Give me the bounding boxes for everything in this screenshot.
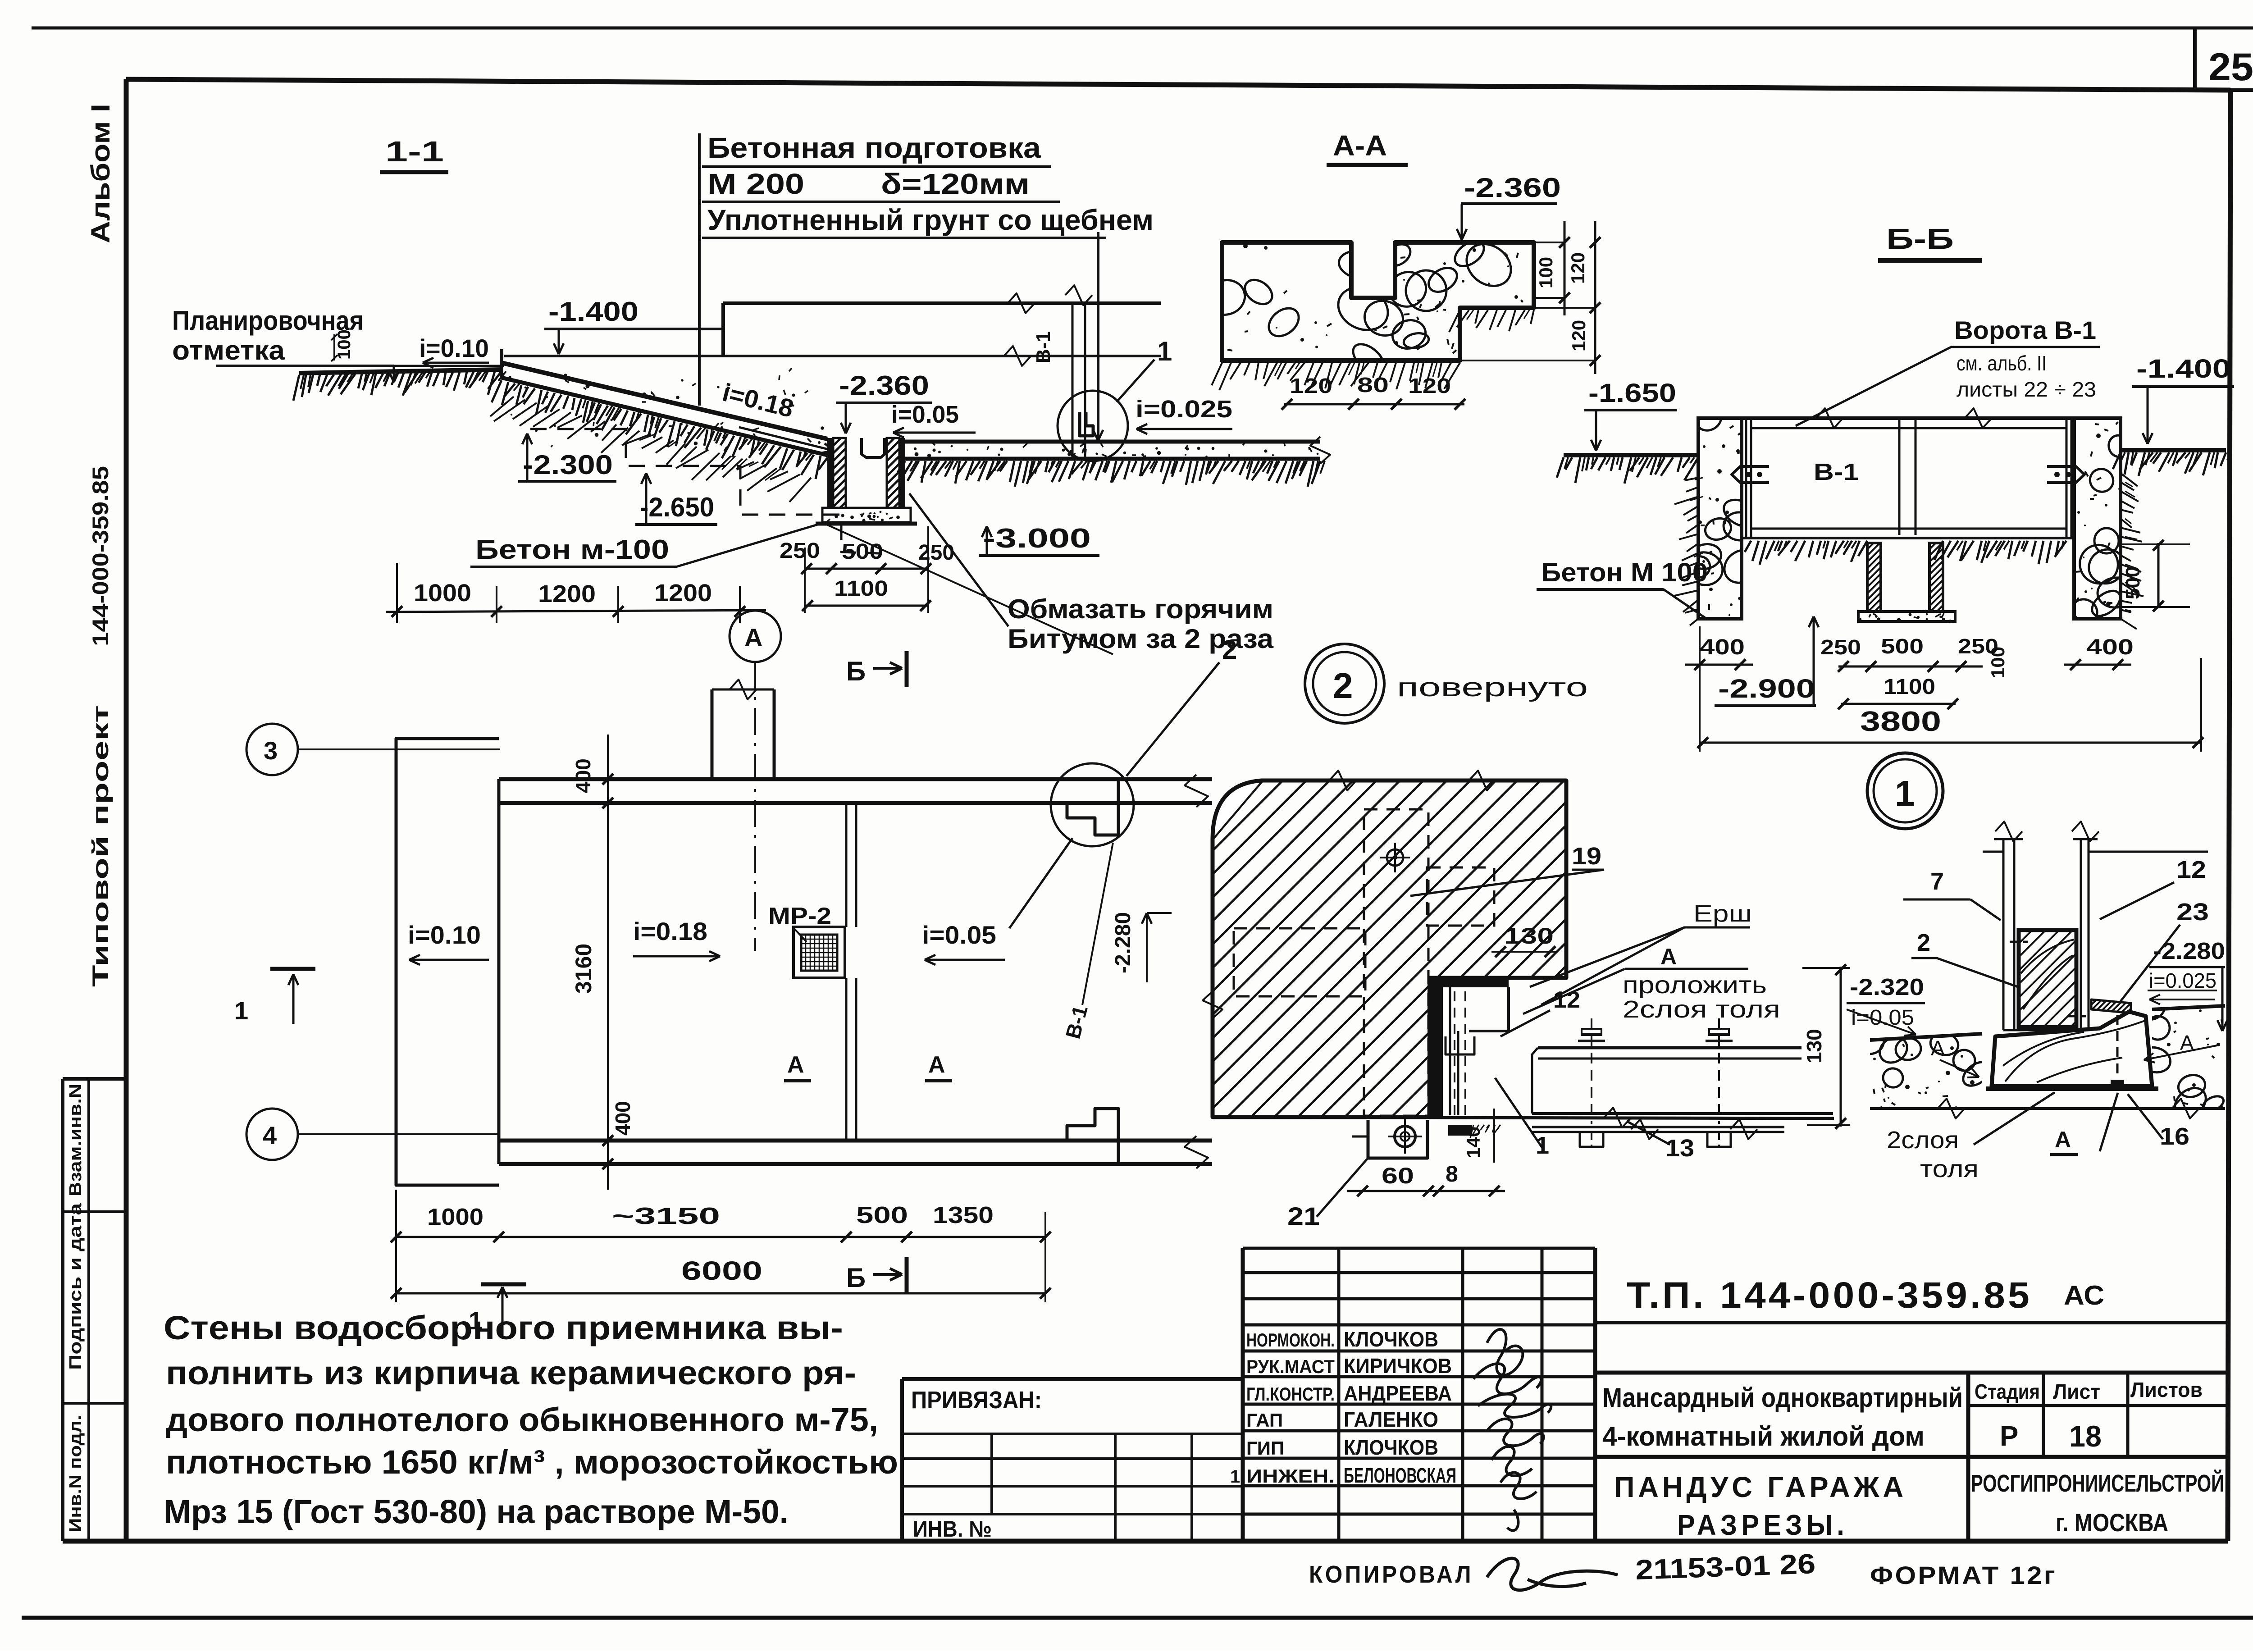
svg-text:100: 100 — [1987, 647, 2008, 678]
svg-text:1100: 1100 — [1884, 675, 1935, 699]
svg-text:δ=120мм: δ=120мм — [881, 168, 1030, 200]
svg-text:Т.П. 144-000-359.85: Т.П. 144-000-359.85 — [1627, 1275, 2032, 1316]
svg-text:АС: АС — [2064, 1280, 2104, 1310]
svg-text:500: 500 — [2122, 566, 2144, 599]
svg-text:КОПИРОВАЛ: КОПИРОВАЛ — [1309, 1561, 1473, 1588]
svg-text:8: 8 — [1446, 1161, 1458, 1187]
svg-text:21153-01 26: 21153-01 26 — [1635, 1548, 1816, 1586]
svg-text:Бетонная подготовка: Бетонная подготовка — [707, 132, 1041, 164]
svg-text:4: 4 — [263, 1121, 277, 1150]
svg-text:i=0.05: i=0.05 — [891, 401, 959, 428]
svg-text:Инв.N подл.: Инв.N подл. — [66, 1415, 85, 1532]
svg-text:500: 500 — [842, 540, 883, 564]
svg-text:i=0.05: i=0.05 — [1851, 1006, 1914, 1030]
svg-text:толя: толя — [1920, 1155, 1979, 1182]
svg-text:1: 1 — [234, 996, 248, 1025]
svg-text:1200: 1200 — [538, 580, 596, 607]
svg-text:250: 250 — [918, 541, 954, 565]
svg-text:80: 80 — [1357, 373, 1389, 397]
svg-text:Альбом I: Альбом I — [86, 104, 115, 243]
svg-text:400: 400 — [571, 758, 595, 793]
svg-text:2слоя: 2слоя — [1887, 1127, 1959, 1154]
svg-text:i=0.10: i=0.10 — [408, 921, 481, 949]
svg-text:-1.400: -1.400 — [548, 297, 639, 327]
svg-text:РОСГИПРОНИИСЕЛЬСТРОЙ: РОСГИПРОНИИСЕЛЬСТРОЙ — [1971, 1469, 2224, 1497]
svg-text:ГИП: ГИП — [1246, 1438, 1284, 1459]
svg-text:19: 19 — [1572, 843, 1601, 870]
svg-text:12: 12 — [1553, 987, 1580, 1013]
svg-text:12: 12 — [2176, 856, 2206, 883]
svg-text:130: 130 — [1504, 923, 1554, 949]
svg-text:16: 16 — [2160, 1123, 2189, 1150]
svg-text:7: 7 — [1930, 868, 1944, 895]
svg-text:-2.360: -2.360 — [839, 370, 929, 401]
svg-text:-2.280: -2.280 — [2153, 938, 2225, 964]
svg-text:А: А — [744, 623, 762, 652]
svg-text:Б: Б — [846, 656, 866, 686]
svg-text:400: 400 — [1700, 635, 1745, 659]
svg-text:i=0.18: i=0.18 — [633, 917, 707, 945]
svg-text:Уплотненный грунт со щебнем: Уплотненный грунт со щебнем — [707, 204, 1154, 236]
svg-text:Мрз 15 (Гост 530-80) на раство: Мрз 15 (Гост 530-80) на растворе М-50. — [164, 1493, 789, 1530]
svg-text:140: 140 — [1463, 1127, 1484, 1158]
svg-text:i=0.025: i=0.025 — [1136, 396, 1232, 423]
svg-text:2слоя толя: 2слоя толя — [1623, 996, 1780, 1023]
svg-text:плотностью 1650 кг/м³ , моро: плотностью 1650 кг/м³ , морозостойкостью — [166, 1443, 898, 1481]
svg-text:i=0.05: i=0.05 — [922, 921, 996, 949]
svg-text:1100: 1100 — [834, 577, 888, 601]
svg-text:-2.360: -2.360 — [1464, 173, 1561, 203]
svg-text:Р: Р — [2000, 1421, 2018, 1452]
svg-text:250: 250 — [780, 539, 820, 563]
svg-text:i=0.10: i=0.10 — [419, 334, 489, 362]
svg-text:МР-2: МР-2 — [768, 903, 831, 929]
svg-text:1000: 1000 — [427, 1204, 483, 1230]
svg-text:1000: 1000 — [414, 580, 471, 607]
svg-text:25: 25 — [2208, 46, 2253, 89]
svg-text:500: 500 — [1881, 634, 1924, 658]
svg-text:400: 400 — [2086, 635, 2134, 659]
svg-text:-1.400: -1.400 — [2136, 354, 2231, 383]
svg-text:ПРИВЯЗАН:: ПРИВЯЗАН: — [911, 1387, 1042, 1414]
svg-text:А: А — [2055, 1127, 2071, 1152]
svg-text:400: 400 — [611, 1101, 634, 1136]
svg-text:100: 100 — [1535, 257, 1556, 288]
svg-text:6000: 6000 — [681, 1256, 762, 1286]
svg-text:21: 21 — [1287, 1202, 1320, 1230]
svg-text:БЕЛОНОВСКАЯ: БЕЛОНОВСКАЯ — [1344, 1464, 1456, 1487]
svg-text:Бетон м-100: Бетон м-100 — [475, 534, 669, 565]
svg-text:120: 120 — [1567, 252, 1588, 284]
svg-text:i=0.025: i=0.025 — [2149, 969, 2217, 992]
svg-text:1350: 1350 — [933, 1202, 994, 1228]
svg-text:ИНВ. №: ИНВ. № — [913, 1516, 992, 1542]
svg-text:250: 250 — [1820, 635, 1861, 659]
svg-text:1: 1 — [469, 1306, 483, 1335]
svg-text:Б: Б — [846, 1263, 866, 1293]
svg-text:А: А — [928, 1052, 945, 1078]
svg-text:Лист: Лист — [2053, 1380, 2100, 1403]
svg-text:Типовой проект: Типовой проект — [88, 705, 113, 987]
svg-text:В-1: В-1 — [1814, 459, 1859, 485]
svg-text:НОРМОКОН.: НОРМОКОН. — [1246, 1329, 1335, 1351]
svg-text:ГАП: ГАП — [1246, 1410, 1283, 1431]
svg-text:4-комнатный жилой дом: 4-комнатный жилой дом — [1602, 1421, 1925, 1451]
svg-text:23: 23 — [2176, 899, 2209, 926]
svg-text:Бетон М 100: Бетон М 100 — [1541, 558, 1708, 587]
svg-text:-1.650: -1.650 — [1588, 379, 1676, 408]
svg-text:Ерш: Ерш — [1693, 901, 1752, 927]
svg-text:Взам.инв.N: Взам.инв.N — [66, 1084, 85, 1196]
svg-text:см. альб. II: см. альб. II — [1957, 351, 2047, 375]
svg-text:1: 1 — [1895, 773, 1915, 813]
svg-text:А: А — [1931, 1036, 1945, 1060]
svg-text:А-А: А-А — [1333, 129, 1387, 162]
svg-text:ФОРМАТ 12г: ФОРМАТ 12г — [1870, 1561, 2057, 1589]
svg-text:А: А — [1660, 944, 1677, 969]
svg-text:Листов: Листов — [2130, 1378, 2203, 1401]
svg-text:повернуто: повернуто — [1397, 673, 1588, 702]
svg-text:~3150: ~3150 — [612, 1203, 720, 1229]
svg-text:ГАЛЕНКО: ГАЛЕНКО — [1344, 1408, 1438, 1431]
svg-text:-2.280: -2.280 — [1111, 912, 1135, 973]
svg-text:РАЗРЕЗЫ.: РАЗРЕЗЫ. — [1677, 1509, 1848, 1541]
svg-text:Обмазать горячим: Обмазать горячим — [1008, 594, 1273, 624]
svg-text:А: А — [787, 1052, 804, 1078]
svg-text:1200: 1200 — [654, 580, 712, 607]
svg-text:М 200: М 200 — [707, 168, 804, 200]
svg-text:3800: 3800 — [1860, 706, 1941, 737]
svg-text:120: 120 — [1568, 320, 1589, 351]
svg-text:полнить из кирпича керамиче: полнить из кирпича керамического ря- — [166, 1354, 856, 1392]
svg-text:60: 60 — [1382, 1163, 1414, 1188]
svg-text:ПАНДУС ГАРАЖА: ПАНДУС ГАРАЖА — [1614, 1471, 1907, 1503]
svg-text:дового полнотелого обыкновен: дового полнотелого обыкновенного м-75, — [166, 1401, 878, 1438]
svg-text:проложить: проложить — [1623, 972, 1767, 999]
svg-text:2: 2 — [1917, 929, 1930, 956]
svg-text:Б-Б: Б-Б — [1886, 223, 1954, 255]
svg-text:ИНЖЕН.: ИНЖЕН. — [1246, 1465, 1335, 1487]
svg-text:отметка: отметка — [172, 335, 285, 365]
svg-text:-2.900: -2.900 — [1718, 674, 1815, 703]
svg-text:500: 500 — [856, 1202, 908, 1228]
svg-text:Ворота В-1: Ворота В-1 — [1954, 316, 2096, 344]
svg-text:13: 13 — [1665, 1135, 1694, 1162]
svg-text:КЛОЧКОВ: КЛОЧКОВ — [1344, 1328, 1438, 1351]
svg-text:КЛОЧКОВ: КЛОЧКОВ — [1344, 1436, 1438, 1459]
svg-text:144-000-359.85: 144-000-359.85 — [88, 466, 113, 646]
svg-text:2: 2 — [1222, 634, 1237, 665]
svg-text:В-1: В-1 — [1032, 331, 1054, 363]
svg-text:АНДРЕЕВА: АНДРЕЕВА — [1344, 1382, 1452, 1405]
svg-text:Мансардный одноквартирный: Мансардный одноквартирный — [1602, 1383, 1963, 1413]
svg-text:3160: 3160 — [571, 944, 596, 994]
svg-text:-2.300: -2.300 — [523, 450, 613, 480]
svg-text:г. МОСКВА: г. МОСКВА — [2056, 1508, 2168, 1537]
svg-text:ГЛ.КОНСТР.: ГЛ.КОНСТР. — [1246, 1383, 1335, 1405]
svg-text:Стадия: Стадия — [1975, 1380, 2040, 1403]
svg-text:120: 120 — [1290, 374, 1332, 397]
svg-text:2: 2 — [1333, 666, 1353, 706]
svg-text:РУК.МАСТ: РУК.МАСТ — [1246, 1356, 1335, 1377]
svg-text:1-1: 1-1 — [385, 135, 444, 168]
svg-text:3: 3 — [264, 736, 278, 765]
svg-text:Подпись и дата: Подпись и дата — [66, 1203, 85, 1370]
svg-text:130: 130 — [1802, 1029, 1826, 1063]
svg-text:1: 1 — [1157, 336, 1172, 366]
svg-text:листы 22 ÷ 23: листы 22 ÷ 23 — [1957, 378, 2096, 401]
svg-text:-2.320: -2.320 — [1850, 974, 1924, 1000]
svg-text:-2.650: -2.650 — [640, 492, 714, 522]
svg-text:120: 120 — [1408, 374, 1451, 397]
svg-text:1: 1 — [1230, 1467, 1240, 1487]
svg-text:18: 18 — [2069, 1419, 2102, 1453]
svg-text:КИРИЧКОВ: КИРИЧКОВ — [1344, 1354, 1452, 1378]
svg-text:-3.000: -3.000 — [983, 523, 1091, 553]
svg-text:1: 1 — [1536, 1132, 1549, 1159]
